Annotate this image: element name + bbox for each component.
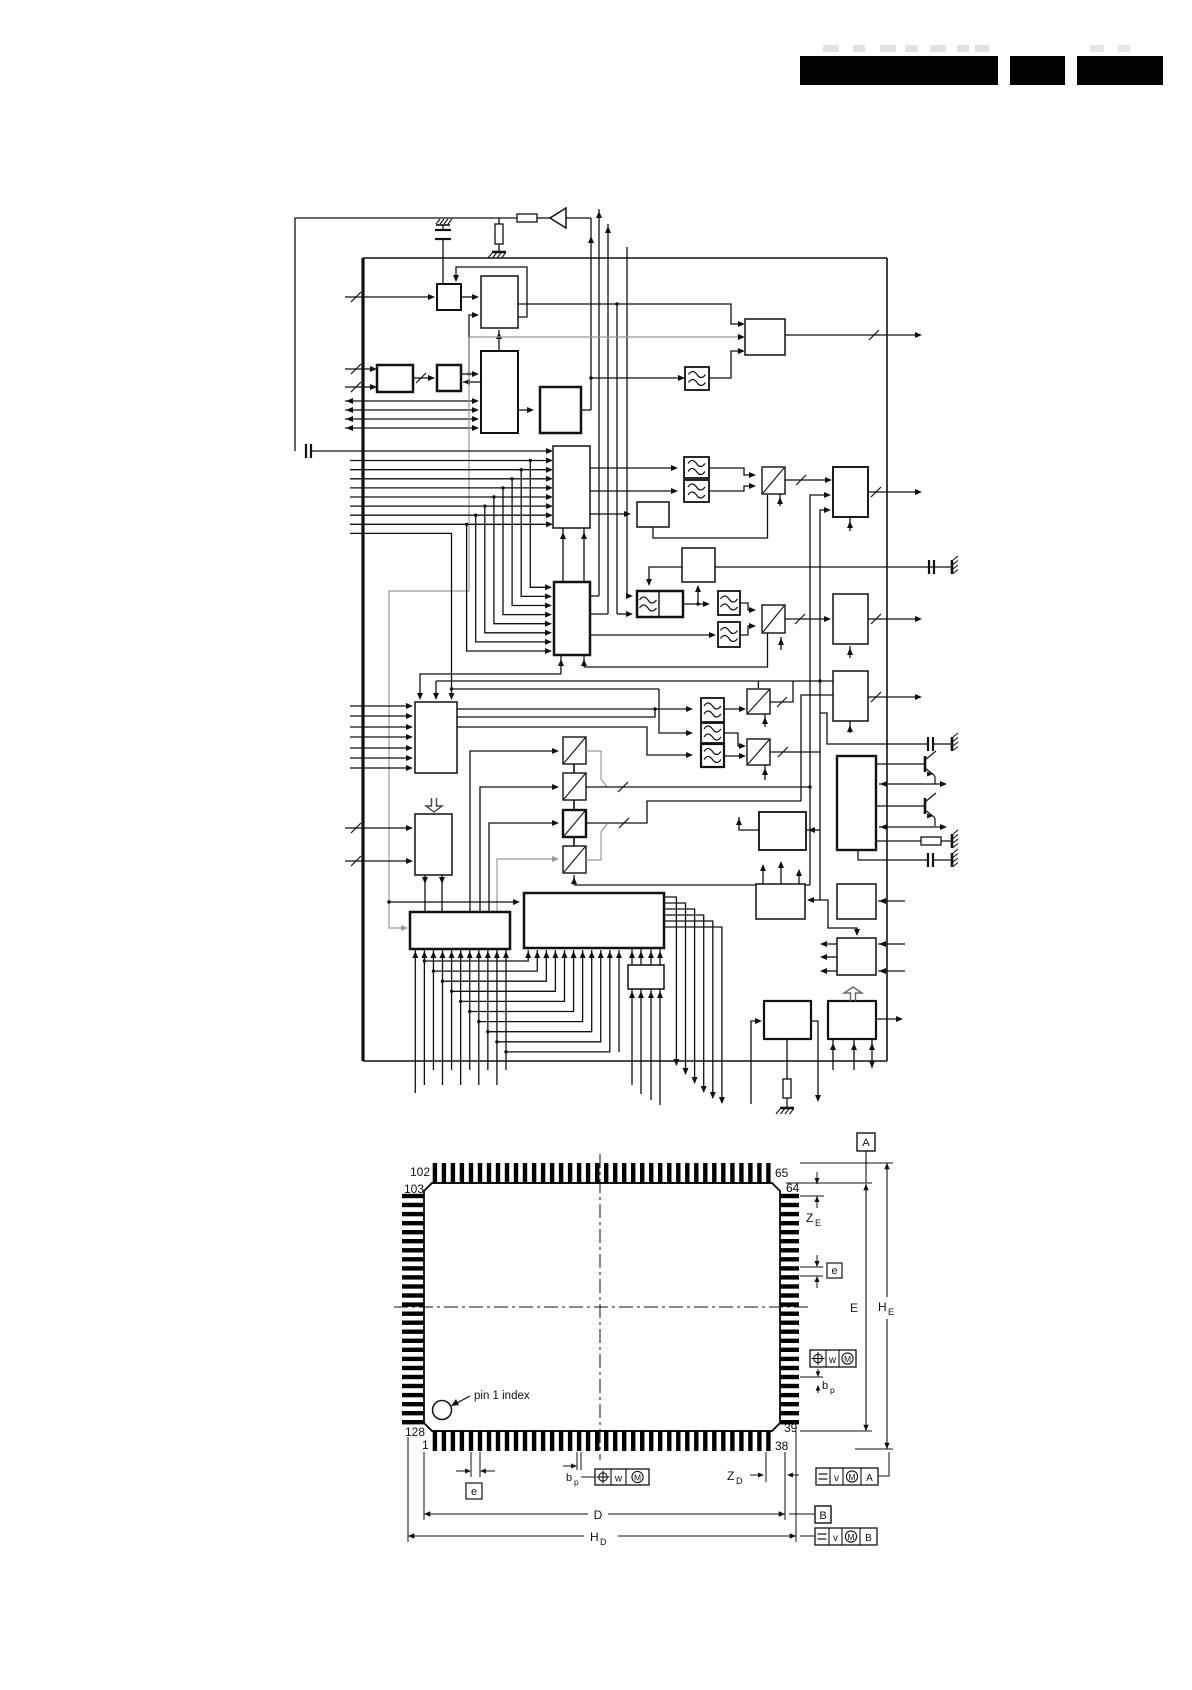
wire O out2 (822, 956, 837, 958)
wire DS2 out (586, 786, 810, 788)
wire leader D to B (789, 1513, 815, 1515)
symbol fat down arrow (426, 798, 442, 812)
wire B feedback to A (456, 267, 527, 317)
wire K base2 (876, 805, 925, 807)
svg-text:Z: Z (806, 1211, 813, 1225)
wire gray DS1 out (586, 751, 607, 787)
wire G2 bottom in1 (560, 655, 562, 674)
package body outline (424, 1183, 780, 1431)
capacitor C-k1 (927, 737, 929, 751)
wire gray AGC down (389, 337, 469, 928)
ground (951, 834, 954, 848)
wire branch to G2 in6 (485, 506, 550, 633)
svg-text:102: 102 (410, 1165, 430, 1179)
wire bidir C io3 (345, 418, 477, 420)
svg-text:D: D (600, 1537, 607, 1547)
wire audio in5 (350, 747, 411, 749)
dimension bp bottom (576, 1452, 578, 1470)
wire T out down 6 (664, 927, 722, 1103)
block MIX (745, 319, 785, 355)
filter FL5a (718, 591, 740, 615)
wire FL2b to DG1 (709, 486, 754, 491)
wire G1 bottom link2 (583, 528, 585, 582)
wire branch to G2 in7 (476, 515, 550, 642)
wire input A (345, 296, 433, 298)
wire R down 1 (631, 989, 633, 1085)
wire C to E (463, 381, 481, 383)
bus out x599 (598, 209, 600, 596)
wire T to R 3 (650, 948, 652, 965)
wire M1 out2 (457, 709, 655, 717)
crystal X1 (436, 219, 440, 224)
svg-text:D: D (736, 1476, 743, 1486)
dimension e right (800, 1266, 823, 1268)
centerline vertical (599, 1154, 601, 1460)
wire T out down 1 (664, 897, 676, 1065)
wire input D2 (345, 386, 375, 388)
svg-text:M: M (847, 1532, 854, 1542)
wire G1 bottom link1 (562, 528, 564, 582)
wire DS4 bottom in (573, 875, 575, 885)
wire (933, 743, 951, 745)
wire V to S 2 (441, 875, 443, 912)
tolerance frame w bottom (595, 1469, 649, 1485)
wire B out to mixer (518, 304, 743, 324)
wire audio in7 (350, 767, 411, 769)
wire vertical to R-gnd (498, 218, 500, 224)
wire audio in4 (350, 736, 411, 738)
block N i2c (837, 884, 876, 919)
svg-text:b: b (822, 1380, 828, 1392)
wire FL2a to DG1 (709, 468, 754, 475)
wire R down 3 (650, 989, 652, 1100)
filter FL6c (701, 744, 724, 767)
dimension D line (424, 1513, 588, 1515)
svg-text:65: 65 (775, 1166, 789, 1180)
resistor R-gnd (495, 224, 503, 244)
wire C to B (498, 330, 500, 351)
svg-text:w: w (614, 1474, 623, 1485)
redaction bar 3 (1077, 56, 1163, 85)
wire J output (868, 696, 920, 698)
wire (311, 450, 363, 452)
block E buffer (437, 365, 461, 391)
wire K res (876, 840, 921, 842)
wire S pin 9 (487, 950, 489, 1070)
svg-text:v: v (834, 1473, 839, 1484)
svg-text:A: A (862, 1137, 870, 1149)
block M1 audio matrix (415, 702, 457, 773)
wire PL to CF (649, 567, 682, 584)
wire FL6b to DG4 (724, 733, 744, 746)
right pin column (780, 1194, 799, 1425)
wire J bottom stub (849, 721, 851, 733)
wire data line 2 (350, 469, 551, 471)
wire H bottom stub (849, 517, 851, 531)
wire feeder DS2/S (480, 787, 557, 912)
block K2 (637, 502, 669, 527)
datum B box (815, 1506, 831, 1523)
wire E/C to B (469, 315, 477, 374)
block B PLL (481, 276, 518, 328)
wire T out down 2 (664, 903, 686, 1074)
svg-text:p: p (574, 1477, 579, 1487)
wire Q gnd1 (832, 1039, 834, 1070)
wire audio in1 (350, 705, 411, 707)
svg-text:e: e (471, 1486, 477, 1498)
wire R down 4 (659, 989, 661, 1105)
wire data line 3 (350, 478, 551, 480)
wire (933, 859, 951, 861)
ground (951, 853, 954, 867)
wire bus to FL1 (591, 377, 683, 379)
svg-text:E: E (815, 1218, 821, 1228)
capacitor C-k2 (927, 853, 929, 867)
wire S pin 3 (432, 950, 434, 1070)
wire FL5b to DG2 (740, 626, 754, 635)
wire P out down (811, 1021, 818, 1100)
label e box bottom (466, 1483, 482, 1499)
svg-text:w: w (828, 1355, 837, 1366)
wire matrix top in1 (420, 674, 561, 698)
wire oscillator top (295, 218, 517, 451)
wire FL6a to DG3 (724, 708, 744, 710)
wire DG1 to H (785, 479, 830, 481)
block R aux dac (628, 965, 664, 989)
wire T out down 5 (664, 921, 713, 1098)
bus x617 (616, 304, 618, 614)
wire leader (581, 1476, 595, 1478)
block H output1 (833, 467, 868, 517)
wire audio in2 (350, 715, 411, 717)
block O bus interface (837, 938, 876, 975)
wire bus810 to H (810, 495, 829, 885)
wire T out down 4 (664, 915, 704, 1092)
wire M top out3 (798, 871, 800, 884)
wire T to R 1 (631, 948, 633, 965)
ground (951, 560, 954, 574)
wire mixer output (785, 334, 920, 336)
wire CF out (683, 603, 708, 605)
wire I bottom (849, 646, 851, 658)
extension line bottom HE (855, 1448, 893, 1450)
svg-text:H: H (590, 1530, 599, 1544)
tolerance frame w right (810, 1350, 856, 1367)
extension HD left (407, 1437, 409, 1542)
block F divider (540, 387, 581, 433)
svg-text:B: B (819, 1510, 826, 1522)
wire stack link3 (573, 837, 575, 846)
extension line top HE (800, 1162, 893, 1164)
wire P bottom (786, 1039, 788, 1079)
filter FL2a (684, 457, 709, 478)
wire data line 9 to matrix (350, 533, 452, 698)
wire T input (389, 901, 518, 903)
svg-text:M: M (634, 1472, 641, 1482)
wire (537, 217, 550, 219)
svg-text:B: B (865, 1533, 872, 1544)
wire data line 1 (350, 460, 551, 462)
wire A to B (461, 296, 477, 298)
wire L right (806, 829, 820, 831)
wire net y885 (574, 884, 810, 886)
wire Q output (876, 1018, 901, 1020)
wire bus801 (801, 695, 833, 801)
extension line bottom E (800, 1430, 872, 1432)
filter CF main (637, 591, 683, 617)
wire data line 8 (350, 523, 551, 525)
block Q supply (828, 1001, 876, 1039)
svg-text:Z: Z (727, 1469, 734, 1483)
bus x627 (626, 247, 628, 596)
wire bidir audio2 (879, 826, 945, 828)
ground (780, 1107, 794, 1110)
block G1 data decoder (553, 446, 590, 528)
wire branch to G2 in1 (530, 461, 550, 588)
datum A box (857, 1133, 875, 1151)
diag DG2 DAC (762, 605, 785, 633)
wire bidir C io1 (345, 400, 477, 402)
wire G2 out to FL5b (590, 634, 714, 636)
dimension HE line (886, 1163, 888, 1297)
dimension bp right (817, 1369, 819, 1375)
transistor Q1 (924, 756, 927, 772)
svg-text:103: 103 (404, 1182, 424, 1196)
dimension e bottom (470, 1452, 472, 1477)
block PL phase det (682, 548, 715, 582)
wire S pin 8 (478, 950, 480, 1085)
wire Q gnd3 (871, 1039, 873, 1068)
svg-text:D: D (594, 1508, 603, 1522)
block C control (481, 351, 518, 433)
dimension ZE (816, 1172, 818, 1184)
diag DS4 (563, 846, 586, 873)
tolerance frame vA (816, 1468, 878, 1485)
wire (566, 217, 591, 219)
svg-text:38: 38 (775, 1439, 789, 1453)
extension D left (423, 1452, 425, 1520)
wire K bottom cap (858, 850, 928, 860)
wire y689 to FL6b (659, 689, 691, 733)
wire S pin 11 (505, 950, 507, 1070)
wire gray DS4 out (586, 824, 607, 860)
wire link to O top (820, 900, 857, 934)
resistor R-ref (783, 1079, 791, 1098)
wire S pin 4 (442, 950, 444, 1085)
filter FL1 (685, 367, 709, 390)
wire T out down 3 (664, 909, 695, 1083)
dimension HD line (408, 1535, 584, 1537)
wire CF to PL (697, 586, 699, 604)
diag DG4 (747, 739, 770, 765)
wire T to R 2 (640, 948, 642, 965)
wire FL6c to DG4 (724, 755, 744, 757)
centerline horizontal (394, 1306, 812, 1308)
IC boundary box (361, 258, 364, 1061)
label e box right (827, 1263, 842, 1278)
wire data line 5 (350, 496, 551, 498)
redaction bar 1 (800, 56, 998, 85)
wire F to bus (581, 409, 591, 411)
wire FL5a to DG2 (740, 603, 754, 610)
wire data line 4 (350, 487, 551, 489)
wire G1 out2 (590, 490, 676, 492)
wire G1 out1 (590, 467, 676, 469)
wire data line 6 (350, 505, 551, 507)
block D interface (377, 365, 413, 392)
wire K2 to DG1 (653, 495, 768, 538)
wire (941, 840, 951, 842)
svg-text:b: b (566, 1472, 572, 1484)
wire stack link2 (573, 800, 575, 810)
svg-text:128: 128 (405, 1425, 425, 1439)
wire DG2 bottom stub (780, 637, 782, 650)
wire DG3 bottom (764, 714, 766, 727)
wire DG1 bottom stub (779, 494, 781, 506)
wire C to F (518, 409, 532, 411)
wire audio in6 (350, 757, 411, 759)
wire stack link1 (573, 764, 575, 773)
wire M top out2 (780, 863, 782, 884)
wire L left up (739, 817, 759, 830)
bottom pin row (433, 1431, 771, 1451)
wire T pin 11 (618, 950, 620, 1052)
wire bidir audio1 (879, 783, 945, 785)
filter FL2b (684, 480, 709, 502)
wire DG2 to I (785, 618, 829, 620)
block P reference (764, 1001, 811, 1039)
wire PL out to cap (715, 566, 934, 568)
wire branch to G2 in5 (494, 497, 550, 624)
pin 1 index arrow (455, 1396, 470, 1404)
wire M1 out1 (457, 708, 691, 710)
wire O in2 (878, 970, 905, 972)
left pin column (402, 1194, 424, 1425)
wire K base1 (876, 763, 925, 765)
block G2 data decoder (554, 582, 590, 655)
wire branch to G2 in4 (503, 488, 550, 615)
wire DG4 bottom (764, 765, 766, 780)
svg-text:M: M (844, 1354, 851, 1364)
block A prescaler (437, 284, 461, 310)
wire (934, 566, 951, 568)
bus XTAL-out x591 (590, 218, 592, 410)
wire H output (868, 491, 920, 493)
wire data line 7 (350, 514, 551, 516)
tolerance frame vB (815, 1528, 877, 1545)
block S port expander (410, 912, 510, 949)
wire S pin 5 (451, 950, 453, 1070)
wire feeder DS3/S (489, 823, 557, 912)
wire V to S 1 (424, 875, 426, 912)
wire O in1 (878, 943, 905, 945)
resistor R-k (921, 837, 941, 845)
dimension ZD arrow (750, 1474, 762, 1476)
diag DG3 (747, 689, 770, 714)
dimension arrow left of D ext (789, 1474, 799, 1476)
filter FL6a (701, 698, 724, 722)
capacitor C-fb (305, 444, 307, 458)
capacitor C-pll (928, 560, 930, 574)
wire DG4 out (770, 751, 820, 753)
svg-text:v: v (833, 1533, 838, 1544)
svg-text:M: M (848, 1472, 855, 1482)
wire S pin 7 (469, 950, 471, 1070)
block I output2 (833, 594, 868, 644)
diag DS1 (563, 737, 586, 764)
pin 1 index circle (433, 1401, 452, 1420)
inverter amp U-osc (550, 208, 566, 228)
wire branch to G2 in2 (521, 470, 550, 597)
svg-text:pin 1 index: pin 1 index (474, 1390, 530, 1402)
svg-text:p: p (830, 1385, 835, 1395)
wire D to E (413, 377, 433, 379)
wire O out3 (822, 970, 837, 972)
wire P input (751, 1021, 760, 1104)
wire G1 out3 (590, 513, 629, 515)
svg-text:e: e (831, 1265, 837, 1277)
wire bus820 to H (820, 510, 829, 900)
wire M top out1 (762, 866, 764, 884)
wire leader HD to vB (800, 1535, 815, 1537)
dimension E line (865, 1151, 867, 1183)
block L aux (759, 812, 806, 850)
top pin row (433, 1163, 771, 1183)
wire matrix top in2 (435, 697, 437, 699)
svg-text:1: 1 (422, 1438, 429, 1452)
wire bus820 to M (809, 899, 820, 901)
svg-text:E: E (888, 1307, 894, 1317)
wire I output (868, 618, 920, 620)
ground (951, 737, 954, 751)
wire input V2 (345, 860, 411, 862)
wire net y681 to J (436, 680, 833, 682)
wire S pin 10 (496, 950, 498, 1085)
block V volume (415, 814, 452, 875)
wire gray AGC to mixer (469, 336, 741, 338)
wire input D1 (345, 368, 375, 370)
block M status (756, 884, 805, 919)
wire E to C (461, 373, 477, 375)
wire branch to G2 in8 (467, 524, 550, 651)
block J output3 (833, 671, 868, 721)
wire S pin 6 (460, 950, 462, 1085)
resistor R-osc (517, 214, 537, 222)
wire DS3 out (586, 801, 801, 823)
wire bidir C io2 (345, 409, 477, 411)
filter FL5b (718, 622, 740, 647)
bus out x608 (607, 224, 609, 614)
wire cap net to G1 (363, 450, 551, 452)
symbol fat up arrow (844, 987, 862, 1001)
diag DG1 DAC (762, 467, 785, 494)
filter FL6b (701, 723, 724, 743)
wire R down 2 (640, 989, 642, 1094)
block K audio out amp (837, 756, 876, 850)
wire N input (878, 900, 905, 902)
wire gray feeder DS4/S (497, 859, 557, 912)
wire S pin 2 (423, 950, 425, 1085)
wire M1 out3 (457, 727, 691, 755)
wire branch to G2 in3 (512, 479, 550, 606)
svg-text:A: A (866, 1473, 873, 1484)
wire FL1 to mixer (709, 351, 743, 378)
ghost marks (823, 45, 839, 52)
svg-text:E: E (850, 1301, 858, 1315)
extension line top E (786, 1182, 872, 1184)
wire input V1 (345, 827, 411, 829)
extension ZD (765, 1452, 767, 1482)
